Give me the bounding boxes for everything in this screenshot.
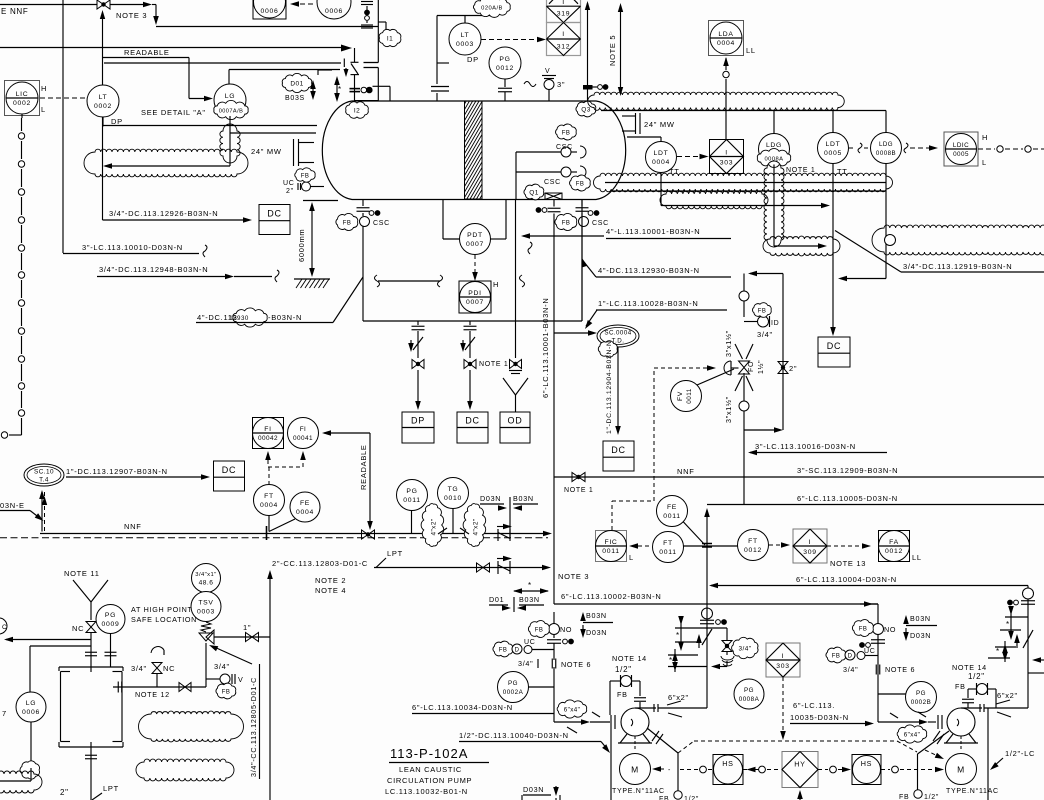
pump A motor: [634, 736, 636, 751]
cloud 6x4 A: [557, 700, 587, 718]
svg-text:FB: FB: [535, 627, 544, 633]
svg-text:3": 3": [557, 80, 565, 89]
svg-text:6"-LC.113.10004-D03N-N: 6"-LC.113.10004-D03N-N: [796, 575, 897, 584]
svg-text:0009: 0009: [102, 621, 120, 628]
svg-text:NOTE 1: NOTE 1: [564, 487, 593, 494]
svg-text:DC: DC: [465, 416, 479, 426]
svg-text:TYPE.N°11AC: TYPE.N°11AC: [946, 787, 999, 795]
wire x378 vertical: [377, 0, 379, 63]
wire riser PG9: [110, 634, 112, 668]
svg-text:V: V: [238, 675, 244, 684]
svg-text:2": 2": [286, 188, 294, 195]
pump B motor: [960, 736, 962, 751]
valve 2in bypass: [778, 362, 788, 368]
svg-text:NOTE 1: NOTE 1: [479, 361, 508, 368]
svg-text:D01: D01: [290, 80, 303, 87]
svg-text:03N-E: 03N-E: [0, 501, 25, 510]
svg-text:LL: LL: [746, 46, 756, 55]
svg-text:303: 303: [720, 160, 733, 167]
chain circle 1: [700, 766, 707, 773]
wire flush drop: [515, 152, 517, 172]
flush connection lower: [516, 171, 561, 173]
instrument FI 00041: [288, 418, 319, 449]
instrument PG 0012: [489, 47, 521, 79]
svg-text:0003: 0003: [456, 41, 474, 48]
wire pump A discharge: [658, 707, 707, 709]
instrument FV 0011: [671, 381, 702, 412]
insulation horizontal: [84, 149, 248, 177]
svg-text:OD: OD: [508, 416, 523, 426]
flange pump B discharge: [979, 704, 981, 712]
wire PG0011 tap: [411, 511, 413, 534]
svg-text:LDIC: LDIC: [953, 142, 969, 149]
instrument LIC 0002: [5, 81, 40, 116]
instrument FT 0012: [738, 530, 769, 561]
svg-text:0002B: 0002B: [911, 699, 931, 706]
gauge bridle bottom: [59, 746, 123, 748]
svg-text:0007A/B: 0007A/B: [219, 108, 244, 114]
bypass return B: [1032, 657, 1041, 663]
cloud I2: [346, 102, 369, 118]
instrument PG 0002A: [498, 672, 529, 703]
svg-text:10035-D03N-N: 10035-D03N-N: [790, 713, 849, 722]
svg-text:M: M: [957, 765, 965, 775]
svg-text:H: H: [982, 133, 988, 142]
sink DP box: [402, 412, 434, 443]
cloud 6x4 B: [897, 725, 927, 743]
wire LT down: [102, 117, 104, 127]
svg-text:0004: 0004: [652, 159, 670, 166]
svg-text:3/4"-DC.113.12926-B03N-N: 3/4"-DC.113.12926-B03N-N: [109, 209, 218, 218]
spring TSV: [201, 622, 211, 632]
wire LDT5 drop: [832, 164, 834, 335]
offpage SC.10 T.4: [24, 464, 64, 486]
gauge bridle top: [59, 666, 123, 668]
svg-text:HY: HY: [794, 760, 805, 769]
svg-text:FI: FI: [264, 426, 271, 433]
wire header y26: [156, 26, 378, 28]
hand switch HS 1: [713, 755, 743, 785]
svg-text:NNF: NNF: [677, 467, 695, 476]
svg-text:LT: LT: [461, 32, 470, 39]
insulation pillow 1: [139, 711, 244, 742]
svg-text:0004: 0004: [717, 40, 735, 47]
valve NC vent: [86, 622, 96, 628]
reducer slashes: [438, 528, 447, 534]
wire bridle bottom pipe: [605, 182, 886, 184]
svg-text:0010: 0010: [444, 495, 462, 502]
instrument LDA 0004: [709, 21, 744, 56]
wire TG0010 tap: [452, 509, 454, 534]
svg-text:LPT: LPT: [387, 549, 403, 558]
svg-text:*: *: [1006, 620, 1010, 629]
instrument LG 0007A/B: [214, 84, 246, 116]
signal LDIC right: [978, 148, 995, 150]
wire x554 main drop: [553, 214, 555, 605]
insulation pillow small: [660, 191, 768, 209]
svg-text:3/4": 3/4": [518, 659, 533, 668]
svg-text:1": 1": [243, 623, 251, 632]
svg-text:CSC: CSC: [373, 220, 390, 227]
svg-text:TG: TG: [448, 486, 459, 493]
svg-text:D03N: D03N: [586, 628, 607, 637]
svg-text:I2: I2: [354, 107, 360, 114]
instrument LT 0002: [87, 85, 119, 117]
wire HY bottom arrow: [799, 792, 801, 800]
svg-text:1"-DC.113.12904-B03N-N: 1"-DC.113.12904-B03N-N: [606, 340, 613, 434]
pipe break right of PDI: [520, 275, 525, 287]
svg-text:6"-LC.113.10005-D03N-N: 6"-LC.113.10005-D03N-N: [797, 494, 898, 503]
gauge bracket left: [60, 672, 62, 742]
svg-text:UC: UC: [283, 180, 295, 187]
signal LT0003 to I312: [481, 39, 541, 41]
wire FV riser lower: [743, 373, 745, 401]
chain circle 4: [892, 766, 899, 773]
wire FV riser to FT0012: [743, 430, 745, 505]
svg-text:6"-LC.113.10034-D03N-N: 6"-LC.113.10034-D03N-N: [412, 703, 513, 712]
instrument LDT 0004: [646, 142, 677, 173]
signal FT12-I309: [769, 544, 785, 546]
svg-text:CSC: CSC: [544, 179, 561, 186]
svg-text:LPT: LPT: [103, 784, 119, 793]
svg-text:READABLE: READABLE: [359, 444, 368, 490]
svg-text:6000mm: 6000mm: [297, 229, 306, 262]
cloud N 12904: [598, 341, 617, 358]
svg-text:4"x2": 4"x2": [431, 518, 438, 535]
svg-text:FB: FB: [562, 130, 571, 136]
svg-text:1/2": 1/2": [924, 794, 939, 800]
wire LG riser: [228, 70, 230, 85]
svg-text:FO: FO: [748, 361, 755, 372]
wire LIC down: [21, 114, 23, 118]
valve on drain: [179, 683, 185, 692]
svg-text:FB: FB: [659, 796, 669, 800]
svg-text:LDG: LDG: [879, 141, 893, 148]
svg-text:DP: DP: [111, 117, 123, 126]
vortex breaker: [545, 193, 562, 200]
svg-text:I: I: [562, 31, 565, 38]
svg-text:3/4": 3/4": [843, 665, 858, 674]
cloud FB upper: [556, 124, 577, 140]
svg-text:2"-CC.113.12803-D01-C: 2"-CC.113.12803-D01-C: [272, 559, 368, 568]
svg-text:PG: PG: [744, 687, 754, 694]
valve FV 0011 body: [739, 361, 750, 368]
wire readable branch: [103, 57, 190, 59]
svg-text:NC: NC: [163, 664, 175, 673]
valve NO B: [873, 624, 884, 635]
fitting FB ID 3/4: [744, 321, 757, 323]
signal FV dashed route: [611, 501, 613, 530]
signal LDGB to LDIC: [904, 143, 908, 153]
svg-text:FV: FV: [677, 391, 684, 401]
pipe break segment: [375, 275, 380, 287]
svg-text:LDA: LDA: [718, 31, 733, 38]
svg-text:0011: 0011: [659, 549, 676, 556]
instrument FT 0011: [653, 532, 684, 563]
svg-text:NOTE 5: NOTE 5: [608, 35, 617, 66]
wire PG A stub: [529, 686, 555, 688]
wire LG down: [229, 116, 231, 127]
svg-text:319: 319: [557, 11, 570, 18]
wire FE0011 diag: [683, 522, 705, 546]
collector DC box 1: [259, 205, 290, 235]
svg-text:0011: 0011: [602, 548, 619, 555]
collector DC box right: [818, 337, 850, 367]
svg-text:6"x2": 6"x2": [668, 693, 689, 702]
svg-text:0005: 0005: [824, 150, 842, 157]
signal FIC-FT11: [629, 543, 638, 549]
svg-text:0011: 0011: [686, 388, 693, 404]
wire 10002 line: [554, 603, 878, 605]
wire OD leg: [515, 199, 517, 358]
wire x582 header end: [581, 200, 583, 321]
wire LDT4 drop: [660, 173, 662, 206]
pump B base: [946, 734, 953, 743]
instrument PG 0011: [397, 480, 428, 511]
svg-text:NOTE 2: NOTE 2: [315, 576, 346, 585]
svg-text:I1: I1: [387, 35, 393, 42]
svg-text:0002: 0002: [13, 100, 31, 107]
wire x378 lower: [377, 68, 379, 87]
svg-text:D01: D01: [489, 595, 504, 604]
wire 12919 underline: [901, 271, 1044, 273]
signal dash M A: [652, 766, 661, 772]
signal I309-FA: [827, 545, 866, 547]
svg-text:0006: 0006: [325, 8, 343, 15]
signal dash 2: [743, 769, 757, 771]
wire to corner: [110, 4, 149, 6]
nozzle x582 CSC: [576, 207, 589, 209]
svg-text:FB: FB: [343, 220, 352, 226]
wire pump B discharge: [984, 707, 1028, 709]
instrument LG 0006: [16, 692, 46, 722]
instrument LDT 0005: [818, 133, 849, 164]
wire FT0011 to line: [684, 545, 745, 547]
svg-text:PG: PG: [105, 612, 116, 619]
insulation vertical LG: [220, 124, 240, 163]
wire y126 header: [103, 125, 317, 127]
wire FV stem: [697, 369, 734, 385]
signal FI00042 dashes: [265, 451, 271, 460]
svg-text:UC: UC: [864, 648, 876, 655]
svg-text:0006: 0006: [22, 709, 40, 716]
svg-text:*: *: [338, 85, 342, 94]
wire DC leg: [464, 325, 477, 327]
svg-text:NNF: NNF: [124, 522, 142, 531]
svg-text:0008B: 0008B: [876, 150, 896, 157]
svg-text:6"x4": 6"x4": [564, 706, 581, 713]
svg-text:CSC: CSC: [592, 220, 609, 227]
signal FT0004 up: [268, 467, 270, 484]
cloud FB x582: [555, 213, 577, 230]
wire pump A suction: [554, 721, 586, 723]
svg-text:0012: 0012: [885, 548, 903, 555]
fitting cap A: [553, 635, 555, 639]
drain header y687: [113, 686, 206, 688]
instrument PDI 0007: [459, 281, 491, 313]
svg-text:-B03N-N: -B03N-N: [268, 313, 302, 322]
svg-text:1½": 1½": [757, 360, 765, 374]
svg-text:PG: PG: [916, 690, 926, 697]
wire TSV inlet: [205, 643, 207, 687]
svg-text:3"-LC.113.10010-D03N-N: 3"-LC.113.10010-D03N-N: [82, 243, 183, 252]
wire second line: [30, 645, 91, 647]
svg-text:B03S: B03S: [285, 95, 305, 102]
svg-text:DP: DP: [411, 416, 425, 426]
insulation pillow 2: [136, 759, 234, 781]
interlock I 303b: [766, 643, 800, 677]
cloud 0008A: [757, 149, 790, 168]
insulation LG corner: [20, 761, 39, 779]
wire 10004 line: [709, 583, 718, 588]
svg-text:6"x2": 6"x2": [997, 691, 1018, 700]
signal LDT4 to I303: [677, 156, 703, 158]
svg-text:-: -: [668, 767, 671, 774]
svg-text:2": 2": [789, 364, 797, 373]
svg-text:LIC: LIC: [16, 91, 29, 98]
svg-text:4"x2": 4"x2": [473, 518, 480, 535]
cloud FB lower: [570, 175, 591, 191]
svg-text:0011: 0011: [403, 497, 420, 504]
wire PG B stub: [878, 693, 906, 695]
svg-text:B03N: B03N: [519, 595, 540, 604]
svg-text:1/2": 1/2": [684, 796, 699, 800]
svg-text:FB: FB: [859, 626, 868, 632]
svg-text:M: M: [631, 765, 639, 775]
valve NOTE1 on NNF: [572, 473, 579, 482]
svg-text:3/4": 3/4": [739, 645, 752, 652]
svg-text:PDT: PDT: [467, 232, 483, 239]
svg-text:DP: DP: [467, 55, 479, 64]
leader 12805: [212, 646, 252, 664]
wire TSV outlet: [214, 636, 270, 638]
future tie-in: [514, 590, 548, 592]
interlock diag A: [647, 728, 678, 753]
signal LIC-LT dashed: [40, 97, 86, 99]
valve NO A: [549, 624, 560, 635]
wire readable right: [322, 430, 331, 436]
wire NNF solid: [40, 533, 547, 535]
wire 12907 line: [66, 476, 206, 478]
instrument PDT 0007: [460, 224, 491, 255]
cloud I1: [379, 29, 401, 46]
wire x878 drop: [864, 601, 873, 607]
cloud 4x2 right: [463, 504, 486, 547]
wire LG drain: [30, 722, 32, 768]
svg-text:D03N: D03N: [480, 494, 501, 503]
insulation band top right: [588, 92, 845, 110]
instrument LDG 0008B: [871, 133, 902, 164]
svg-text:7: 7: [2, 709, 7, 718]
wire drain header: [363, 320, 582, 322]
svg-text:SAFE LOCATION: SAFE LOCATION: [131, 615, 197, 624]
svg-text:4"-L.113.10001-B03N-N: 4"-L.113.10001-B03N-N: [606, 227, 700, 236]
label 4-DC.113.12930 left: [233, 308, 267, 327]
svg-text:0002A: 0002A: [503, 689, 524, 696]
svg-text:I: I: [562, 0, 565, 6]
bleed assembly B: [1005, 616, 1028, 618]
relay HY: [782, 752, 818, 788]
svg-text:00041: 00041: [293, 435, 313, 442]
wire drain A: [610, 729, 612, 800]
insulation LDG A elbow: [763, 236, 840, 256]
wire SC10 vertical pair: [39, 490, 45, 499]
svg-text:0002: 0002: [94, 103, 112, 110]
cloud FB D A: [493, 641, 513, 657]
svg-text:3"-SC.113.12909-B03N-N: 3"-SC.113.12909-B03N-N: [797, 466, 898, 475]
valve on LPT: [477, 563, 484, 572]
svg-text:NOTE 3: NOTE 3: [116, 11, 147, 20]
svg-text:FA: FA: [889, 539, 899, 546]
svg-text:NOTE 12: NOTE 12: [135, 690, 170, 699]
valve x368: [362, 530, 369, 539]
nozzle x363 CSC: [357, 207, 370, 209]
svg-text:L: L: [41, 105, 46, 114]
svg-text:DC: DC: [827, 341, 841, 351]
svg-text:6"-LC.113.10001-B03N-N: 6"-LC.113.10001-B03N-N: [541, 298, 550, 398]
wire x582 drop: [581, 227, 583, 322]
instrument size bubble: [192, 564, 221, 593]
wire vertical x102 with up arrow: [100, 10, 105, 19]
sink DC box: [457, 412, 488, 443]
svg-text:00042: 00042: [258, 435, 278, 442]
svg-text:D: D: [848, 654, 853, 660]
wire LG inner: [30, 768, 32, 781]
wire disch A riser: [706, 604, 708, 608]
signal I303b drop: [782, 677, 784, 736]
sink OD box: [500, 412, 530, 443]
svg-text:LDT: LDT: [826, 141, 841, 148]
wire 10005 line: [707, 504, 1044, 506]
check jog B: [1023, 630, 1033, 648]
svg-text:DC: DC: [222, 465, 236, 475]
svg-text:H: H: [493, 280, 499, 289]
svg-text:LDT: LDT: [654, 150, 669, 157]
svg-text:113-P-102A: 113-P-102A: [390, 746, 468, 761]
fitting stack x367: [361, 1, 373, 3]
svg-text:12930: 12930: [229, 315, 249, 322]
svg-text:DC: DC: [611, 445, 625, 455]
wire LDT5 stub: [832, 111, 834, 133]
svg-text:1/2"-LC: 1/2"-LC: [1005, 749, 1035, 758]
wire FE diag: [269, 519, 295, 532]
svg-text:3/4": 3/4": [757, 330, 773, 339]
insulation LDG A drop: [764, 161, 784, 247]
svg-text:D03N: D03N: [910, 631, 931, 640]
svg-text:LL: LL: [912, 553, 922, 562]
instrument M B: [946, 754, 977, 785]
relief valve body: [199, 633, 213, 641]
hand switch HS 2: [852, 755, 881, 785]
svg-text:0012: 0012: [496, 65, 514, 72]
fitting cap disch B: [1023, 588, 1034, 599]
instrument TG 0010: [438, 478, 469, 509]
instrument FA 0012: [879, 531, 910, 562]
svg-text:0007: 0007: [466, 241, 484, 248]
pipe break squiggle: [528, 242, 532, 254]
insulation LG run: [0, 771, 42, 793]
bypass 3/4 A: [707, 627, 727, 629]
svg-text:Q3: Q3: [581, 106, 591, 113]
svg-text:0003: 0003: [197, 609, 215, 616]
svg-text:*: *: [676, 631, 680, 640]
interlock I 312: [547, 23, 581, 56]
svg-text:NOTE 4: NOTE 4: [315, 586, 346, 595]
svg-text:FB: FB: [899, 794, 909, 800]
instrument FIC 0011: [596, 531, 627, 562]
offpage SC.0004: [597, 325, 639, 347]
wire NNF 3SC line: [554, 476, 1044, 478]
